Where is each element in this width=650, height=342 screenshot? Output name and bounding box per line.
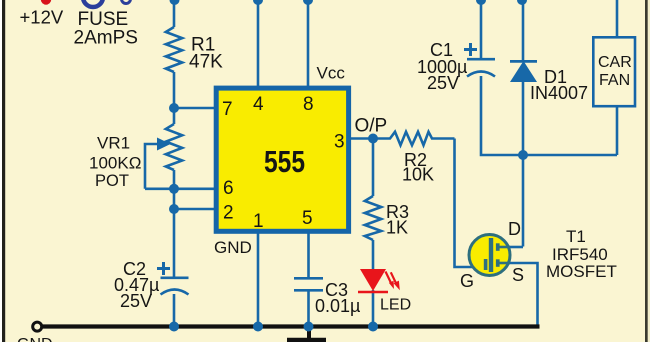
svg-text:5: 5 [302,208,313,229]
node wiper/pin6 [169,184,179,194]
node top bus R1 [170,0,180,5]
wire pin4 top [257,0,260,87]
VR1 wiper wire [145,144,160,189]
wire LED to ground line [372,290,375,326]
svg-text:100KΩ: 100KΩ [89,154,141,173]
transistor T1 IRF540 MOSFET [469,235,510,276]
wire R1 to node A [173,72,176,124]
wire D1 to node [522,82,525,155]
svg-text:T1: T1 [566,227,586,246]
wire R3 top [372,139,375,197]
wire car fan bottom [616,106,619,155]
ground symbol [287,329,326,340]
svg-text:25V: 25V [427,73,459,93]
wire C3 to ground line [307,290,310,326]
svg-text:3: 3 [334,132,345,153]
label C2 polarity + [157,262,170,275]
wire D1 top [522,0,525,60]
potentiometer VR1 [166,124,182,170]
resistor R3 [365,196,381,240]
wire pin1 down [257,232,260,326]
resistor R1 [166,27,182,72]
fuse F1 2A [83,0,131,7]
svg-text:47K: 47K [189,52,223,73]
svg-text:2AmPS: 2AmPS [74,28,138,49]
label C1 polarity + [464,43,477,56]
wire pin7 stub [174,107,214,110]
svg-text:1: 1 [253,211,264,232]
svg-text:GND: GND [214,238,252,257]
svg-text:+12V: +12V [20,7,64,28]
wire +12V bus: R1 top vertical [173,0,176,27]
node drain rail [518,150,528,160]
node O/P [368,134,378,144]
svg-text:IN4007: IN4007 [530,83,588,103]
svg-text:8: 8 [303,94,314,115]
node pin2 [169,204,179,214]
svg-text:LED: LED [380,297,411,314]
capacitor C1 [467,58,495,61]
node top bus pin8 [303,0,313,5]
svg-text:25V: 25V [120,291,152,311]
node top bus pin4 [253,0,263,5]
wire source lead [508,263,538,326]
svg-text:D: D [508,219,521,239]
terminal GND [33,322,42,331]
svg-text:GND: GND [17,336,53,342]
wire C1 bottom rail [481,76,617,155]
svg-text:VR1: VR1 [97,134,130,153]
svg-text:2: 2 [223,203,234,224]
node C2/gnd [169,322,179,332]
node R1/VR1/pin7 [169,103,179,113]
wire car fan top [616,0,619,37]
svg-text:10K: 10K [402,165,434,185]
svg-text:4: 4 [253,94,264,115]
svg-text:555: 555 [264,144,305,179]
wire pin2 stub [174,208,214,211]
svg-text:POT: POT [95,172,129,190]
svg-text:Vcc: Vcc [317,64,346,83]
load M1 car fan [593,37,635,106]
svg-text:0.01µ: 0.01µ [315,296,360,316]
svg-text:7: 7 [222,99,233,120]
svg-text:FAN: FAN [599,72,630,89]
capacitor C3 [294,277,323,280]
wire R3 to LED [372,240,375,270]
capacitor C2 [161,276,189,279]
node LED/gnd [368,322,378,332]
terminal +12V [41,0,51,5]
VR1 wiper arrow [157,138,171,151]
svg-text:MOSFET: MOSFET [546,262,617,281]
wire R2 to gate [455,139,486,268]
wire C1 top [480,0,483,58]
node top bus D1 [517,0,527,5]
node pin1/gnd [253,322,263,332]
node C3/gnd [304,322,314,332]
svg-text:G: G [460,271,474,291]
wire drain lead [508,246,523,249]
diode D1 [510,60,537,82]
wire C2 to ground line [173,294,176,326]
wire pin6 row [145,188,218,191]
wire node to drain [522,155,525,247]
svg-text:S: S [512,265,524,285]
wire pin5 down [307,232,310,277]
resistor R2 [373,132,455,145]
ground bus line [41,324,540,328]
wire pin8 top [307,0,310,87]
svg-text:O/P: O/P [355,116,388,137]
node top bus C1 [476,0,486,5]
wire pin3 output [349,137,373,140]
LED LED1 [358,269,400,292]
svg-text:CAR: CAR [598,54,632,71]
IC IC1 555 timer [216,88,348,231]
svg-text:6: 6 [223,178,234,199]
wire VR1 to pin2 node [173,170,176,277]
svg-text:1K: 1K [386,218,408,238]
